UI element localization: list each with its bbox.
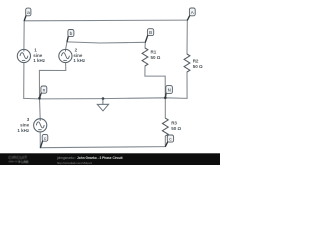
label V3: 3 sine 1 kHz (17, 117, 30, 133)
svg-text:1 kHz: 1 kHz (73, 58, 86, 63)
footer text (56, 156, 123, 165)
wire V1 bottom lead (23, 63, 25, 99)
node c flag below R3 (166, 135, 174, 146)
svg-text:R3: R3 (171, 121, 177, 126)
svg-text:R1: R1 (151, 49, 157, 54)
node c flag below V3 (41, 134, 48, 147)
wire V3 bottom lead (39, 132, 41, 148)
voltage source V3 (34, 119, 47, 132)
svg-text:1 kHz: 1 kHz (33, 58, 46, 63)
svg-text:50 Ω: 50 Ω (193, 64, 203, 69)
wire neutral (24, 98, 187, 99)
node A flag (188, 8, 196, 20)
wire R3 bottom lead (164, 136, 166, 147)
node N flag (165, 86, 172, 98)
svg-text:n: n (43, 89, 46, 94)
ground junction dot (102, 97, 105, 100)
svg-text:A: A (191, 10, 194, 15)
label V2: 2 sine 1 kHz (73, 47, 86, 63)
label R3: 50 ohm (171, 121, 181, 131)
svg-text:sine: sine (73, 53, 83, 58)
wire top a to A (24, 19, 187, 22)
node b flag (67, 30, 74, 42)
svg-text:a: a (27, 11, 30, 16)
label V1: 1 sine 1 kHz (33, 47, 46, 63)
svg-text:johngsnarko : John Gnarko - 3: johngsnarko : John Gnarko - 3 Phase Circ… (56, 156, 123, 160)
svg-text:http://circuitlab.com/v52pv4: http://circuitlab.com/v52pv4 (57, 161, 92, 165)
wire R1 top lead (144, 42, 146, 48)
footer logo CIRCUITLAB (8, 155, 29, 164)
svg-text:50 Ω: 50 Ω (171, 126, 181, 131)
footer bar (0, 153, 220, 165)
node a flag (24, 8, 31, 20)
wire n to V3 (39, 98, 42, 119)
voltage source V2 (59, 49, 72, 62)
wire R3 top lead (164, 98, 166, 118)
node B flag (145, 29, 153, 42)
resistor R3 (162, 118, 168, 136)
wire bottom c run (40, 147, 165, 148)
ground (97, 99, 108, 111)
wire R2 bottom lead (186, 72, 188, 98)
resistor R2 (184, 54, 190, 72)
node N junction dot (164, 97, 167, 100)
svg-text:B: B (149, 30, 152, 35)
resistor R1 (142, 48, 148, 66)
svg-text:50 Ω: 50 Ω (151, 55, 161, 60)
voltage source V1 (17, 49, 30, 62)
wire R1 bottom jog to N (145, 66, 165, 98)
svg-text:1 kHz: 1 kHz (17, 128, 30, 133)
label R2: 50 ohm (193, 59, 203, 69)
svg-text:sine: sine (20, 123, 30, 128)
wire V2 top lead (66, 42, 67, 50)
wire V2 bottom jog to n (39, 63, 65, 99)
svg-text:b: b (70, 31, 73, 37)
wire R2 top lead (186, 20, 188, 54)
node n flag (40, 86, 47, 98)
wire b to B (67, 42, 145, 43)
wire V1 top lead (23, 21, 25, 50)
label R1: 50 ohm (151, 49, 161, 59)
svg-text:LAB: LAB (21, 160, 29, 164)
svg-text:R2: R2 (193, 59, 199, 64)
svg-text:N: N (168, 88, 171, 93)
node n junction dot (38, 97, 41, 100)
svg-text:sine: sine (33, 53, 43, 58)
